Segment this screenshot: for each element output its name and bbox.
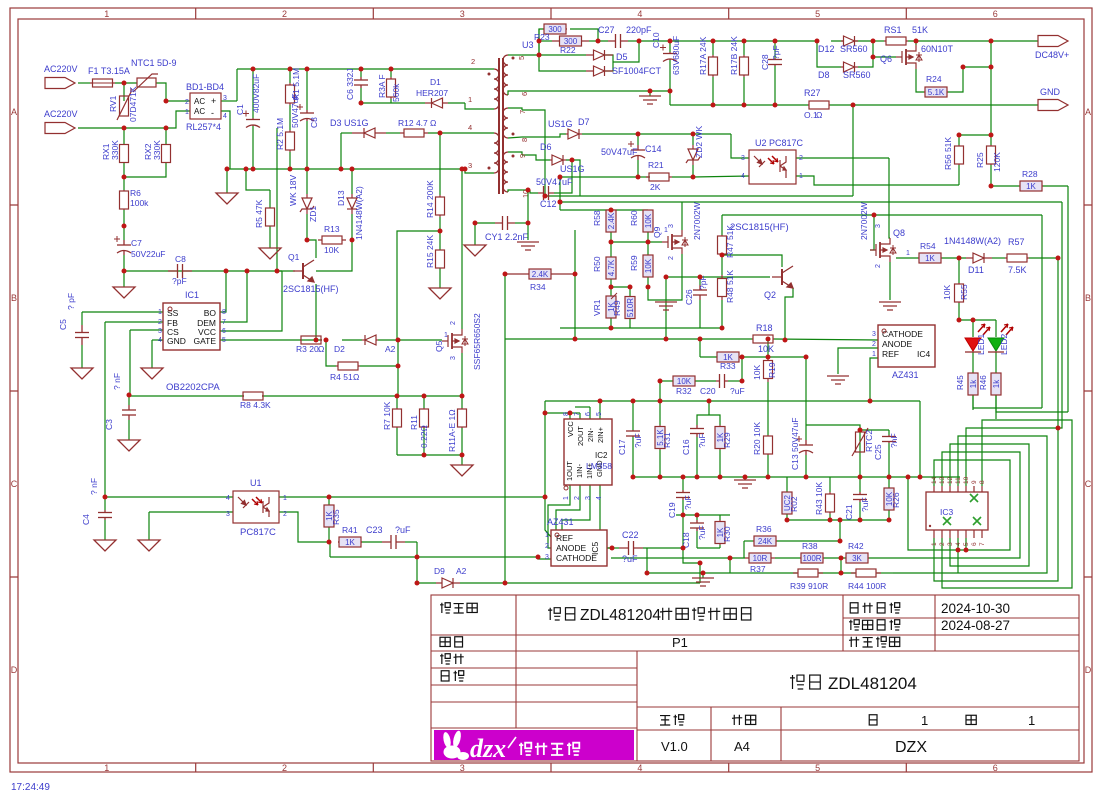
wire c22 gnd col: [646, 548, 648, 573]
junction: [698, 275, 703, 280]
resistor R58: [606, 210, 616, 232]
svg-text:P1: P1: [672, 635, 688, 650]
svg-text:R57: R57: [1008, 237, 1025, 247]
transistor Q2: [772, 266, 793, 288]
svg-text:AC220V: AC220V: [44, 64, 78, 74]
wire ZD2 top: [692, 134, 694, 145]
svg-text:2SC1815(HF): 2SC1815(HF): [730, 222, 789, 233]
net: fb line y542: [338, 541, 382, 543]
junction: [766, 475, 771, 480]
svg-text:3: 3: [460, 9, 465, 19]
svg-text:LED2: LED2: [999, 333, 1009, 355]
junction: [415, 555, 420, 560]
svg-text:Q8: Q8: [893, 228, 905, 238]
resistor R2: [286, 130, 295, 152]
svg-text:R11A-E 1Ω: R11A-E 1Ω: [447, 409, 457, 452]
svg-text:ZD2 WK: ZD2 WK: [694, 126, 704, 158]
capacitor C1: [243, 111, 260, 128]
svg-text:Ω: Ω: [318, 344, 324, 354]
net: opto U1 input: [105, 496, 233, 498]
svg-text:R58: R58: [592, 210, 602, 226]
wire VR1/R49 top tie: [611, 286, 630, 288]
ground C3: [118, 440, 140, 451]
junction: [244, 167, 249, 172]
IC IC1 OB2202CPA: [163, 303, 220, 350]
wire: [697, 547, 720, 549]
svg-text:7.5K: 7.5K: [1008, 265, 1027, 275]
svg-text:1: 1: [283, 495, 287, 502]
svg-text:1: 1: [906, 250, 910, 257]
svg-text:C26: C26: [684, 289, 694, 305]
svg-text:? nF: ? nF: [112, 373, 122, 390]
net: gate drive (y340): [220, 339, 322, 341]
net: R58/R60 head rail (y210): [560, 209, 648, 211]
junction: [957, 256, 962, 261]
wire drop: [416, 542, 418, 557]
resistor R7: [393, 408, 402, 428]
svg-text:-: -: [211, 108, 214, 118]
wire C13 top col: [805, 357, 807, 440]
wire R02 bot: [786, 514, 788, 520]
svg-text:2: 2: [668, 256, 675, 260]
svg-text:A2: A2: [385, 344, 396, 354]
junction: [664, 337, 669, 342]
wire FB column: [104, 322, 106, 497]
svg-text:2: 2: [875, 264, 882, 268]
wire riser: [538, 29, 540, 55]
wire p1 to IC5 anode: [548, 485, 570, 548]
junction: [396, 364, 401, 369]
junction: [543, 194, 548, 199]
svg-text:10K: 10K: [758, 344, 774, 354]
svg-text:?nF: ?nF: [889, 433, 899, 448]
svg-text:D11: D11: [968, 265, 984, 275]
wire tie to C13 col: [806, 425, 860, 430]
junction: [711, 39, 716, 44]
wire p3 hook: [562, 485, 590, 559]
resistor R13: [318, 236, 346, 244]
svg-text:0.22Ω: 0.22Ω: [419, 425, 429, 448]
svg-text:1IN-: 1IN-: [575, 463, 584, 478]
wire BD pin4 down: [221, 111, 230, 169]
svg-text:AZ431: AZ431: [892, 370, 919, 380]
junction: [598, 399, 603, 404]
junction: [609, 208, 614, 213]
svg-text:1k: 1k: [969, 379, 978, 388]
net: rail y357 (R33): [700, 356, 718, 358]
wire p4 gnd hook: [600, 485, 612, 548]
svg-text:5: 5: [815, 763, 820, 773]
svg-text:C28: C28: [760, 54, 770, 70]
svg-text:R34: R34: [530, 282, 546, 292]
wire Q5 drain riser: [461, 169, 463, 329]
wire CS column: [129, 330, 131, 395]
wire ZD2 bot: [692, 165, 694, 177]
junction: [324, 338, 329, 343]
svg-text:?uF: ?uF: [683, 495, 693, 510]
wire to gnd: [148, 512, 150, 540]
wire C17 bot: [632, 437, 634, 477]
junction: [596, 39, 601, 44]
resistor R38: [800, 553, 824, 563]
svg-text:6: 6: [222, 328, 226, 335]
junction: [742, 103, 747, 108]
wire rail y215 ext: [874, 214, 1042, 216]
junction: [740, 379, 745, 384]
svg-text:C20: C20: [700, 386, 716, 396]
junction: [871, 55, 876, 60]
junction: [558, 200, 563, 205]
resistor R17A: [709, 55, 718, 77]
svg-text:R39 910R: R39 910R: [790, 581, 828, 591]
junction: [122, 175, 127, 180]
svg-text:4.7K: 4.7K: [607, 259, 616, 276]
svg-text:12: 12: [947, 476, 954, 484]
svg-text:60N10T: 60N10T: [921, 44, 954, 54]
wire R22 left: [539, 40, 552, 42]
svg-text:R30: R30: [722, 526, 732, 542]
junction: [275, 269, 280, 274]
svg-text:7: 7: [518, 110, 527, 114]
net: DC bus top (y69): [237, 68, 477, 70]
junction: [815, 39, 820, 44]
junction: [543, 411, 548, 416]
svg-text:C14: C14: [645, 144, 662, 154]
svg-text:R56 51K: R56 51K: [943, 137, 953, 170]
svg-text:2: 2: [158, 319, 162, 326]
svg-text:B: B: [11, 293, 17, 303]
junction: [858, 428, 863, 433]
junction: [610, 546, 615, 551]
svg-text:ANODE: ANODE: [556, 543, 587, 553]
svg-text:5: 5: [222, 337, 226, 344]
svg-text:DZX: DZX: [895, 739, 927, 756]
wire C28 bot: [774, 66, 776, 105]
port AC220V (L): [45, 78, 75, 89]
svg-text:50V47uF: 50V47uF: [290, 94, 300, 129]
resistor R15: [436, 250, 445, 268]
resistor R18: [752, 335, 774, 343]
svg-text:3K: 3K: [852, 554, 862, 563]
svg-text:10K: 10K: [324, 245, 339, 255]
wire x920 riser: [919, 401, 921, 477]
wire pin7 stub: [508, 108, 522, 110]
svg-text:C8: C8: [309, 117, 319, 128]
capacitor C17: [626, 430, 640, 437]
svg-text:DC48V+: DC48V+: [1035, 50, 1069, 60]
svg-text:3: 3: [741, 155, 745, 162]
resistor R02: [782, 492, 792, 514]
svg-text:R25: R25: [975, 152, 985, 168]
svg-text:C21: C21: [844, 504, 854, 520]
svg-text:50V47uF: 50V47uF: [601, 147, 638, 157]
bridge rectifier BD1-BD4: [190, 93, 221, 119]
junction: [646, 285, 651, 290]
wire D13-R13: [351, 214, 353, 240]
no-connect: [973, 517, 981, 525]
svg-text:D9: D9: [434, 566, 445, 576]
svg-text:4: 4: [226, 495, 230, 502]
svg-text:4: 4: [955, 542, 962, 546]
svg-text:R12 4.7: R12 4.7: [398, 118, 428, 128]
svg-text:IC2: IC2: [595, 451, 608, 460]
wire pin10: [522, 189, 530, 191]
resistor R48: [718, 275, 727, 300]
junction: [251, 167, 256, 172]
svg-text:10K: 10K: [752, 365, 762, 380]
svg-text:C8: C8: [175, 254, 186, 264]
ground secondary: [639, 96, 661, 104]
optocoupler U1 PC817C: [233, 491, 279, 523]
junction: [415, 581, 420, 586]
svg-text:D7: D7: [578, 117, 590, 127]
junction: [224, 269, 229, 274]
junction: [503, 272, 508, 277]
wire RX1 top: [123, 128, 125, 145]
wire y202 drop: [1058, 202, 1062, 428]
wire: [527, 223, 529, 240]
capacitor C8: [168, 264, 192, 278]
zener ZD2: [686, 145, 700, 165]
junction: [537, 39, 542, 44]
resistor R43: [826, 492, 835, 514]
junction: [914, 39, 919, 44]
wire C22 net hook: [683, 548, 700, 563]
wire R30 top: [719, 515, 721, 520]
wire C7-gnd: [123, 255, 125, 287]
svg-text:R31: R31: [662, 432, 672, 448]
diode D9: [436, 578, 460, 588]
svg-text:D5: D5: [616, 52, 628, 62]
net: R37/R38/R42 rail y558: [611, 557, 745, 559]
wire D5a anode: [539, 54, 586, 56]
wire gnd stub: [702, 573, 704, 578]
net: winding pin4 line (y133): [341, 132, 352, 134]
resistor R4: [336, 362, 360, 370]
svg-text:+: +: [211, 96, 216, 106]
wire R5 top feed: [246, 169, 270, 190]
svg-text:1K: 1K: [925, 254, 935, 263]
wire R57 out: [1029, 257, 1058, 259]
wire gnd stub: [461, 455, 463, 465]
wire R35 top: [328, 497, 330, 505]
junction: [305, 238, 310, 243]
diode D13: [347, 194, 357, 214]
wire R15 gnd: [439, 268, 441, 288]
wire R34 left col: [504, 274, 506, 339]
svg-text:A: A: [11, 107, 17, 117]
wire gnd stub: [649, 91, 651, 96]
junction: [664, 275, 669, 280]
svg-text:4: 4: [741, 173, 745, 180]
svg-text:330K: 330K: [110, 140, 120, 160]
svg-text:6: 6: [520, 92, 529, 96]
wire U1 pin3: [149, 511, 233, 513]
ground R15: [429, 288, 451, 299]
wire R31 bot: [659, 450, 661, 477]
wire D13 top: [351, 169, 353, 194]
svg-text:R45: R45: [956, 375, 965, 390]
junction: [251, 67, 256, 72]
resistor R55: [955, 283, 964, 303]
svg-text:IC1: IC1: [185, 290, 199, 300]
svg-text:D2: D2: [334, 344, 345, 354]
net: C22 line y548: [607, 547, 619, 549]
junction: [637, 39, 642, 44]
wire R54-D11: [942, 257, 966, 259]
resistor R31: [655, 425, 665, 450]
svg-text:2.4K: 2.4K: [532, 270, 549, 279]
wire to D9: [417, 557, 436, 583]
svg-text:D3 US1G: D3 US1G: [330, 118, 369, 128]
resistor R33: [717, 352, 739, 362]
svg-text:C: C: [11, 479, 18, 489]
svg-text:1: 1: [872, 351, 876, 358]
wire R26 bot: [888, 510, 890, 520]
svg-text:10K: 10K: [644, 213, 653, 228]
svg-text:10R: 10R: [753, 554, 768, 563]
resistor R5: [266, 208, 275, 226]
junction: [646, 240, 651, 245]
junction: [695, 475, 700, 480]
junction: [438, 131, 443, 136]
resistor R28: [1019, 181, 1043, 191]
wire R46 bot: [995, 395, 997, 419]
svg-text:R27: R27: [804, 88, 821, 98]
junction: [989, 133, 994, 138]
junction: [871, 39, 876, 44]
wire pin10 stub: [508, 190, 522, 192]
resistor R19: [764, 357, 773, 382]
wire C26 top: [699, 277, 701, 285]
svg-text:R3 20: R3 20: [296, 344, 319, 354]
svg-text:5: 5: [815, 9, 820, 19]
wire R4 right: [360, 365, 398, 367]
svg-text:7: 7: [222, 319, 226, 326]
svg-text:A: A: [1085, 107, 1091, 117]
port DC48V+: [1038, 36, 1068, 47]
wire R29 bot: [719, 450, 721, 477]
svg-text:R17A 24K: R17A 24K: [698, 36, 708, 75]
junction: [957, 318, 962, 323]
wire IC1 BO riser: [220, 271, 226, 312]
thermistor RTC2: [852, 428, 868, 456]
junction: [636, 132, 641, 137]
capacitor C23: [382, 535, 405, 549]
svg-text:2K: 2K: [650, 182, 661, 192]
wire R24 out: [948, 67, 991, 92]
junction: [122, 81, 127, 86]
junction: [691, 132, 696, 137]
transformer secondary winding 7-8: [503, 108, 508, 138]
wire C4 top: [104, 497, 106, 510]
svg-text:10K: 10K: [942, 285, 952, 300]
no-connect: [970, 494, 978, 502]
wire C26 bot: [699, 300, 701, 328]
wire pin8 to D7: [522, 134, 566, 137]
svg-text:100k: 100k: [130, 198, 149, 208]
wire RX1-R6: [123, 162, 125, 190]
junction: [573, 337, 578, 342]
svg-text:R50: R50: [592, 256, 602, 272]
svg-text:VR1: VR1: [592, 299, 602, 316]
svg-text:2IN+: 2IN+: [596, 426, 605, 443]
wire fb tap to R7 col: [397, 231, 440, 340]
title block grid: [431, 595, 1079, 761]
svg-text:9: 9: [971, 480, 978, 484]
wire pin5 stub: [508, 54, 522, 56]
junction: [422, 453, 427, 458]
svg-text:1: 1: [799, 173, 803, 180]
IC IC4 AZ431: [878, 325, 935, 367]
resistor R11A: [458, 408, 467, 428]
wire x575 down: [574, 274, 576, 339]
diode D3: [352, 128, 386, 138]
wire loop p14-p4: [934, 460, 1010, 550]
svg-text:CY1 2.2nF: CY1 2.2nF: [485, 232, 529, 242]
wire down to R36 rail: [839, 520, 841, 541]
resistor R24: [924, 87, 948, 97]
svg-text:D6: D6: [540, 142, 552, 152]
logo dzx: [434, 730, 634, 760]
ground C4: [94, 540, 116, 551]
wire R28 out: [1043, 185, 1068, 187]
svg-text:3: 3: [223, 95, 227, 102]
junction: [906, 475, 911, 480]
resistor R23: [543, 24, 567, 34]
junction: [327, 540, 332, 545]
wire pin4 stub: [465, 132, 494, 134]
junction: [359, 101, 364, 106]
junction: [359, 67, 364, 72]
wire C19 bot: [682, 500, 684, 515]
svg-text:SR560: SR560: [843, 70, 871, 80]
junction: [631, 399, 636, 404]
svg-text:1: 1: [185, 109, 189, 116]
wire D9 out: [460, 582, 700, 584]
svg-text:IC3: IC3: [940, 507, 954, 517]
wire R25 bot: [990, 165, 992, 186]
svg-text:R6: R6: [130, 188, 141, 198]
junction: [918, 475, 923, 480]
resistor R14: [436, 195, 445, 217]
svg-text:2024-08-27: 2024-08-27: [941, 618, 1010, 633]
wire loop p11 to R44 rail: [893, 436, 1047, 573]
svg-text:?uF: ?uF: [730, 386, 745, 396]
net: R8 sense line (y396): [129, 395, 244, 397]
junction: [691, 175, 696, 180]
wire: [565, 412, 580, 414]
junction: [828, 518, 833, 523]
junction: [473, 221, 478, 226]
resistor R41: [338, 537, 362, 547]
svg-text:C23: C23: [366, 525, 383, 535]
wire C5 top: [81, 312, 83, 325]
capacitor C14: [628, 141, 645, 160]
wire D5b anode: [539, 55, 586, 71]
junction: [164, 99, 169, 104]
svg-text:CATHODE: CATHODE: [882, 329, 923, 339]
wire U2 pin2: [796, 157, 889, 159]
svg-text:GATE: GATE: [193, 336, 216, 346]
ground BD: [216, 193, 238, 204]
svg-text:?uF: ?uF: [860, 497, 870, 512]
wire C4 gnd: [104, 520, 106, 540]
wire Q2 collector feed: [722, 255, 782, 267]
svg-text:4: 4: [637, 9, 642, 19]
wire RTC2/C25 top tie: [860, 429, 889, 431]
wire RTC2 bot: [859, 455, 861, 477]
